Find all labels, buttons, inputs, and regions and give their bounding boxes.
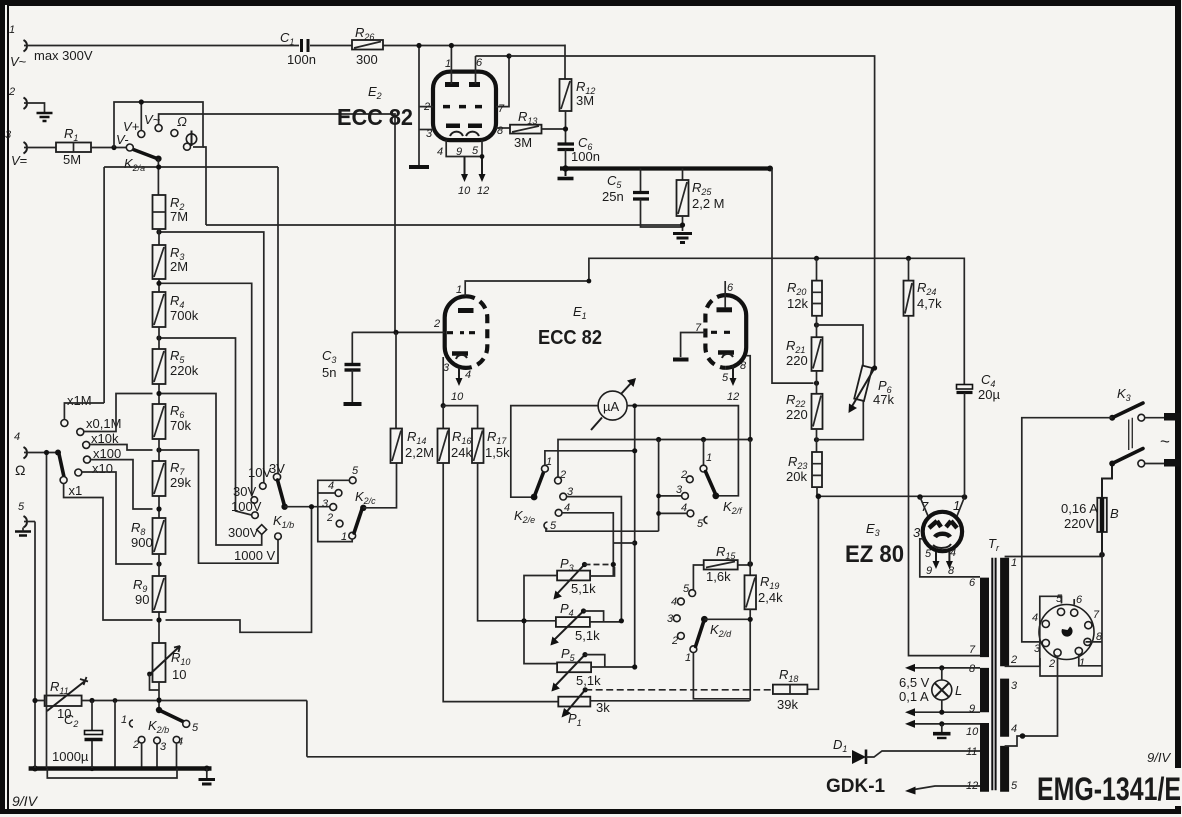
svg-text:C3: C3 — [322, 348, 336, 365]
HT bus (thick) — [560, 166, 772, 170]
potentiometer P6 — [849, 365, 895, 413]
net c1: y=450.8 — [545, 451, 635, 466]
svg-text:2,2M: 2,2M — [405, 445, 434, 460]
bottom long bus y=757 — [307, 701, 851, 757]
resistor R24 — [904, 258, 981, 655]
svg-text:C2: C2 — [64, 712, 78, 729]
svg-text:39k: 39k — [777, 697, 798, 712]
resistor R3 — [153, 229, 189, 292]
wire pin8 chain down — [749, 439, 751, 575]
transformer Tr — [966, 536, 1018, 792]
svg-text:E1: E1 — [573, 304, 587, 321]
K2/c contacts — [322, 465, 376, 543]
svg-text:Ω: Ω — [177, 114, 187, 129]
svg-text:K2/b: K2/b — [148, 718, 169, 735]
resistor R18 — [773, 496, 819, 712]
node R21/R22 (HT feed) — [814, 381, 819, 386]
svg-text:3: 3 — [5, 129, 12, 141]
svg-text:E2: E2 — [368, 84, 382, 101]
capacitor C3 — [322, 332, 362, 404]
svg-text:9/IV: 9/IV — [1147, 750, 1171, 765]
svg-text:R25: R25 — [692, 180, 712, 197]
terminal 4 — [14, 431, 27, 478]
svg-text:1000 V: 1000 V — [234, 548, 276, 563]
cathode bus y=496.3 — [818, 495, 964, 497]
svg-text:Tr: Tr — [988, 536, 1000, 553]
wire terminal3 to R1 — [24, 147, 56, 149]
svg-text:2: 2 — [8, 86, 15, 98]
wire K2/a pole down to chain, left-right header y=167 — [104, 159, 278, 195]
svg-text:P3: P3 — [560, 556, 574, 573]
svg-text:V~: V~ — [10, 54, 27, 69]
svg-text:P4: P4 — [560, 601, 574, 618]
winding 10 wire + ground — [911, 723, 980, 725]
svg-text:10: 10 — [451, 391, 464, 403]
svg-text:9: 9 — [456, 146, 462, 158]
contact x0,1M — [77, 394, 153, 436]
svg-text:EZ 80: EZ 80 — [845, 541, 904, 568]
svg-text:7: 7 — [1093, 609, 1100, 621]
svg-text:3: 3 — [913, 525, 921, 540]
svg-text:8: 8 — [948, 565, 955, 577]
resistor R4 — [153, 292, 199, 327]
contact x1M — [61, 393, 104, 427]
switch K2/e — [514, 456, 574, 532]
terminal 1 — [9, 24, 93, 69]
svg-text:100n: 100n — [287, 52, 316, 67]
tap wire R2/R3 to 10V contact — [162, 232, 264, 483]
ground (R25/C5) — [673, 234, 692, 243]
wire K3 upper pole to socket pin3 — [1022, 418, 1112, 642]
svg-text:2: 2 — [1010, 654, 1017, 666]
svg-text:20µ: 20µ — [978, 387, 1000, 402]
svg-text:5: 5 — [1011, 780, 1018, 792]
node R8/R9 — [156, 561, 161, 566]
svg-text:µA: µA — [603, 399, 619, 414]
svg-text:P1: P1 — [568, 711, 582, 728]
svg-text:R1: R1 — [64, 126, 78, 143]
wire x1 contact down to R9/R10 node — [64, 484, 153, 621]
svg-text:5: 5 — [352, 465, 359, 477]
K2/b contacts 1-4 — [121, 714, 183, 753]
svg-text:220: 220 — [786, 353, 808, 368]
node junction R1/K2a — [111, 145, 116, 150]
wire K1/b pole to K2/c contact3 — [285, 506, 330, 508]
svg-text:29k: 29k — [170, 475, 191, 490]
resistor R15 — [693, 544, 750, 590]
svg-text:R17: R17 — [487, 429, 507, 446]
svg-text:100n: 100n — [571, 149, 600, 164]
svg-text:5,1k: 5,1k — [576, 673, 601, 688]
link y=543 — [613, 542, 634, 544]
E1 right pin leads — [673, 281, 750, 439]
switch arm x-range (K1/a) — [59, 454, 82, 498]
svg-text:K2/c: K2/c — [355, 489, 376, 506]
bracket under bus — [47, 769, 177, 779]
svg-text:7: 7 — [969, 644, 976, 656]
wire uA right to K2/f pole — [627, 406, 738, 496]
E2 pin leads — [416, 43, 511, 165]
phi jack symbol — [186, 134, 196, 144]
svg-text:20k: 20k — [786, 469, 807, 484]
svg-text:K2/d: K2/d — [710, 622, 732, 639]
svg-text:4: 4 — [950, 547, 956, 559]
svg-text:7: 7 — [498, 103, 505, 115]
valve socket — [1032, 593, 1103, 670]
svg-text:4: 4 — [671, 596, 677, 608]
svg-text:R14: R14 — [407, 429, 426, 446]
svg-text:5M: 5M — [63, 152, 81, 167]
svg-text:1000µ: 1000µ — [52, 749, 89, 764]
svg-text:V=: V= — [11, 153, 27, 168]
svg-text:3: 3 — [160, 741, 167, 753]
svg-text:K2/f: K2/f — [723, 499, 743, 516]
vertical uA/c1 chain down to P5 — [634, 406, 636, 667]
winding 4 wire to socket pin 2 — [1005, 657, 1058, 746]
svg-text:12k: 12k — [787, 296, 808, 311]
wire terminal2 to ground — [24, 103, 45, 112]
wire K2/c pole to R14 bottom — [363, 463, 396, 508]
winding 2 wire — [1005, 665, 1040, 667]
svg-text:900: 900 — [131, 535, 153, 550]
resistor R13 — [510, 109, 566, 150]
socket stub wires — [1040, 596, 1102, 666]
svg-text:3: 3 — [1011, 680, 1018, 692]
svg-text:9: 9 — [926, 565, 932, 577]
svg-text:1: 1 — [1079, 657, 1085, 669]
svg-text:10: 10 — [172, 667, 186, 682]
diode D1 — [826, 737, 980, 797]
svg-text:1: 1 — [706, 452, 712, 464]
svg-text:47k: 47k — [873, 392, 894, 407]
node R5/R6 — [156, 391, 161, 396]
svg-text:4: 4 — [1032, 612, 1038, 624]
svg-text:8: 8 — [740, 360, 747, 372]
svg-text:10: 10 — [966, 726, 979, 738]
ground (terminal 2) — [37, 113, 53, 121]
wire terminal 4 — [24, 452, 58, 454]
svg-text:4: 4 — [437, 146, 443, 158]
capacitor C4 electrolytic — [957, 372, 1001, 496]
svg-text:2: 2 — [671, 635, 678, 647]
E2 base box pins 4 9 5 — [437, 140, 489, 197]
resistor R9 — [133, 554, 166, 643]
svg-text:5: 5 — [683, 583, 690, 595]
wire K2/d c1 drop — [693, 653, 749, 699]
svg-text:5: 5 — [722, 372, 729, 384]
winding 9 wire — [911, 711, 980, 713]
svg-text:1: 1 — [685, 652, 691, 664]
tap wire R5/R6 to 300V contact — [162, 394, 262, 546]
capacitor C6 — [558, 135, 600, 167]
svg-text:C5: C5 — [607, 173, 622, 190]
P3/P5 left branch — [524, 576, 557, 664]
net c3 — [567, 497, 622, 621]
mains switch K3 — [1109, 386, 1180, 467]
resistor R17 — [472, 429, 510, 464]
wire V~ line to E1 grid — [203, 114, 395, 332]
node R7/R8 — [156, 506, 161, 511]
svg-text:90: 90 — [135, 592, 149, 607]
K1/b contacts and labels — [228, 461, 294, 563]
svg-text:5,1k: 5,1k — [575, 628, 600, 643]
wire top rail drop to R12 — [564, 45, 566, 80]
E3 heater arrows pins 5,4,9,8 — [925, 547, 956, 577]
svg-text:12: 12 — [727, 391, 739, 403]
svg-text:70k: 70k — [170, 418, 191, 433]
contact x10k — [83, 431, 153, 450]
wires R16 R17 bottoms — [443, 463, 558, 702]
svg-text:~: ~ — [1160, 432, 1170, 451]
node R4/R5 — [156, 335, 161, 340]
wire E2 grid line to far right drop (to P6 wiper) — [509, 56, 875, 368]
switch arm K2/c — [354, 505, 366, 533]
svg-text:2: 2 — [326, 512, 333, 524]
svg-text:220V: 220V — [1064, 516, 1095, 531]
capacitor C5 — [602, 169, 682, 228]
tap wire R3/R4 to 30V contact — [162, 283, 252, 496]
svg-text:1: 1 — [456, 284, 462, 296]
potentiometer P3 — [553, 556, 616, 600]
svg-text:3: 3 — [322, 498, 329, 510]
svg-text:V~: V~ — [144, 112, 161, 127]
svg-text:6: 6 — [476, 57, 483, 69]
svg-text:1,6k: 1,6k — [706, 569, 731, 584]
contact x10 — [75, 461, 153, 564]
rheostat R10 — [147, 643, 190, 690]
potentiometer P1 — [558, 687, 773, 728]
svg-text:8: 8 — [969, 663, 976, 675]
svg-text:0,16 A: 0,16 A — [1061, 501, 1098, 516]
winding 8 wire + lamp top — [911, 667, 980, 669]
svg-text:0,1 A: 0,1 A — [899, 689, 929, 704]
svg-text:6,5 V: 6,5 V — [899, 675, 930, 690]
resistor R14 — [391, 332, 434, 463]
svg-text:Ω: Ω — [15, 462, 25, 478]
net c4 — [562, 513, 613, 576]
tube E1 right triode — [705, 295, 746, 368]
svg-text:EMG-1341/E: EMG-1341/E — [1037, 771, 1181, 807]
wire uA left to K2/e pole — [511, 406, 598, 498]
wires K2/b contacts to bottom bus — [115, 723, 177, 768]
terminal 3 — [5, 129, 27, 168]
svg-text:4: 4 — [1011, 723, 1017, 735]
svg-text:R11: R11 — [50, 679, 69, 696]
wire R1 to K2/a pole — [91, 147, 129, 149]
wire HT bus right drop to R21/R22 node — [772, 169, 814, 384]
potentiometer P5 — [551, 646, 637, 692]
terminal 2 — [8, 86, 27, 109]
node R9/R10 — [156, 617, 161, 622]
svg-text:5: 5 — [697, 518, 704, 530]
svg-text:R26: R26 — [355, 25, 374, 42]
svg-text:3k: 3k — [596, 700, 610, 715]
switch arm K2/a — [116, 132, 162, 173]
svg-text:K1/b: K1/b — [273, 513, 294, 530]
switch arm K2/b — [148, 707, 199, 735]
bottom bus (thick) — [29, 766, 212, 771]
wire top rail from terminal 1 to R12 drop — [24, 45, 565, 47]
resistor R5 — [153, 327, 199, 404]
svg-text:1: 1 — [445, 58, 451, 70]
svg-text:5: 5 — [550, 520, 557, 532]
bar below C6 junction — [565, 170, 567, 176]
ground (main bus) — [199, 769, 216, 785]
node R20/R21 + P6 top tap — [814, 322, 819, 327]
rheostat R11 — [45, 677, 88, 721]
tube E2 envelope — [337, 72, 496, 141]
svg-text:25n: 25n — [602, 189, 624, 204]
svg-text:6: 6 — [727, 282, 734, 294]
ground net wire y=225 — [206, 224, 682, 226]
E3 pin3 wire to winding 6 — [920, 539, 980, 577]
ground (E2 cathode) — [409, 165, 429, 169]
svg-text:4,7k: 4,7k — [917, 296, 942, 311]
svg-text:C1: C1 — [280, 30, 294, 47]
svg-text:3: 3 — [676, 484, 683, 496]
svg-text:6: 6 — [1076, 594, 1083, 606]
svg-text:700k: 700k — [170, 308, 199, 323]
resistor R21 — [786, 337, 823, 371]
svg-text:3M: 3M — [514, 135, 532, 150]
svg-text:x1: x1 — [69, 483, 83, 498]
lamp L — [899, 668, 962, 712]
svg-text:220k: 220k — [170, 363, 199, 378]
net c5 — [546, 528, 659, 532]
svg-text:GDK-1: GDK-1 — [826, 776, 886, 797]
potentiometer P4 — [550, 601, 624, 646]
svg-text:1,5k: 1,5k — [485, 445, 510, 460]
terminal 5 — [15, 501, 31, 536]
wire x1M riser / left box edge — [103, 167, 105, 403]
svg-text:5: 5 — [18, 501, 25, 513]
svg-text:P5: P5 — [561, 646, 576, 663]
svg-text:300: 300 — [356, 52, 378, 67]
node R2/R3 — [156, 229, 161, 234]
svg-text:4: 4 — [328, 480, 334, 492]
switch K2/d — [667, 583, 753, 664]
tap wire pole to 3V contact — [277, 167, 279, 474]
svg-text:1: 1 — [546, 456, 552, 468]
top rail to right column y=258.3 — [817, 258, 965, 385]
svg-text:2: 2 — [1048, 658, 1055, 670]
resistor R25 — [677, 169, 725, 232]
switch arm K1/b — [278, 480, 288, 510]
K2/f vertical and contacts — [659, 440, 687, 532]
svg-text:K2/e: K2/e — [514, 508, 535, 525]
resistor R2 — [153, 195, 189, 229]
svg-text:R16: R16 — [452, 429, 471, 446]
svg-text:8: 8 — [497, 125, 504, 137]
wire phi contact down to ground bus y=225 — [203, 147, 206, 225]
svg-text:R15: R15 — [716, 544, 736, 561]
svg-text:2: 2 — [433, 318, 440, 330]
resistor R26 — [352, 25, 383, 67]
node E1 cathode — [441, 403, 446, 408]
resistor R23 — [786, 452, 822, 496]
svg-text:10: 10 — [458, 185, 471, 197]
svg-text:4: 4 — [681, 502, 687, 514]
resistor R6 — [153, 403, 192, 439]
resistor R7 — [153, 439, 192, 518]
tube E1 left triode — [445, 296, 488, 368]
node R22/R23 + P6 bottom tap — [814, 437, 819, 442]
resistor R8 — [131, 518, 166, 554]
svg-text:6: 6 — [969, 577, 976, 589]
net c2: y=439.5 to K2/f c1 and pin12 — [558, 440, 750, 478]
winding 12 wire — [911, 786, 980, 790]
node R3/R4 — [156, 281, 161, 286]
switch box K2/a — [114, 99, 203, 150]
node R6/R7 — [156, 447, 161, 452]
svg-text:R13: R13 — [518, 109, 537, 126]
svg-text:R18: R18 — [779, 667, 798, 684]
svg-text:4: 4 — [465, 369, 471, 381]
svg-text:3: 3 — [667, 613, 674, 625]
svg-text:1: 1 — [121, 714, 127, 726]
fuse B — [1061, 466, 1119, 558]
resistor R22 — [786, 371, 823, 429]
svg-text:12: 12 — [477, 185, 489, 197]
node R15/R19 — [747, 561, 753, 567]
svg-text:5: 5 — [472, 145, 479, 157]
svg-text:4: 4 — [14, 431, 20, 443]
capacitor C1 — [280, 30, 316, 67]
svg-text:x1M: x1M — [67, 393, 92, 408]
svg-text:2: 2 — [680, 469, 687, 481]
tube E3 EZ80 — [845, 497, 965, 568]
svg-text:9: 9 — [969, 703, 975, 715]
contact x100 — [84, 446, 153, 509]
svg-text:E3: E3 — [866, 521, 880, 538]
svg-text:5: 5 — [192, 722, 199, 734]
svg-text:max 300V: max 300V — [34, 48, 93, 63]
wire y=700 R11 line — [35, 453, 307, 769]
svg-text:K3: K3 — [1117, 386, 1131, 403]
svg-text:D1: D1 — [833, 737, 847, 754]
svg-text:220: 220 — [786, 407, 808, 422]
svg-text:R20: R20 — [787, 280, 806, 297]
svg-text:R19: R19 — [760, 574, 779, 591]
K2/c bracket enclosure — [318, 480, 352, 541]
capacitor C2 electrolytic — [52, 701, 103, 769]
svg-text:2,2 M: 2,2 M — [692, 196, 725, 211]
wire y=620 tap to right — [166, 507, 312, 633]
title EMG-1341/E — [1035, 768, 1182, 807]
wire fuse bottom branch to socket — [1040, 555, 1102, 676]
E1 left pin leads — [352, 258, 816, 405]
svg-text:V-: V- — [116, 132, 129, 147]
svg-text:3M: 3M — [576, 93, 594, 108]
svg-text:1: 1 — [9, 24, 15, 36]
wire R10 to K2/b pole — [158, 682, 160, 710]
svg-text:2M: 2M — [170, 259, 188, 274]
svg-text:R24: R24 — [917, 280, 936, 297]
svg-text:2,4k: 2,4k — [758, 590, 783, 605]
svg-text:1: 1 — [1011, 557, 1017, 569]
tap wire R4/R5 to 100V contact — [162, 338, 252, 515]
tap wire R6/R7 to 1000V contact — [162, 450, 279, 563]
resistor R12 — [560, 79, 596, 144]
winding 1 wire to fuse — [1005, 556, 1102, 558]
svg-text:11: 11 — [966, 746, 977, 758]
svg-text:5: 5 — [925, 548, 932, 560]
svg-text:R10: R10 — [171, 650, 190, 667]
svg-text:x10: x10 — [92, 461, 113, 476]
wire terminal 5 — [24, 521, 35, 523]
svg-text:24k: 24k — [451, 445, 472, 460]
svg-text:5n: 5n — [322, 365, 336, 380]
